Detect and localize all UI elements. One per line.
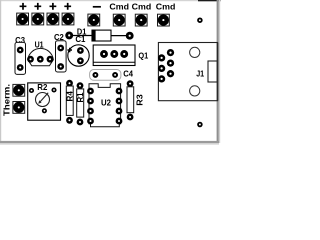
svg-text:R1: R1 — [75, 92, 85, 102]
svg-text:U2: U2 — [101, 98, 111, 108]
svg-text:C1: C1 — [75, 34, 85, 44]
svg-text:Q1: Q1 — [138, 50, 148, 60]
svg-text:Cmd: Cmd — [156, 2, 176, 12]
svg-text:J1: J1 — [196, 69, 204, 79]
svg-text:R3: R3 — [134, 94, 144, 106]
svg-text:C4: C4 — [123, 69, 133, 79]
svg-text:Therm.: Therm. — [1, 84, 11, 116]
svg-text:Cmd: Cmd — [132, 2, 152, 12]
svg-text:Cmd: Cmd — [109, 2, 129, 12]
svg-text:R2: R2 — [37, 82, 47, 92]
svg-text:R4: R4 — [64, 91, 74, 102]
